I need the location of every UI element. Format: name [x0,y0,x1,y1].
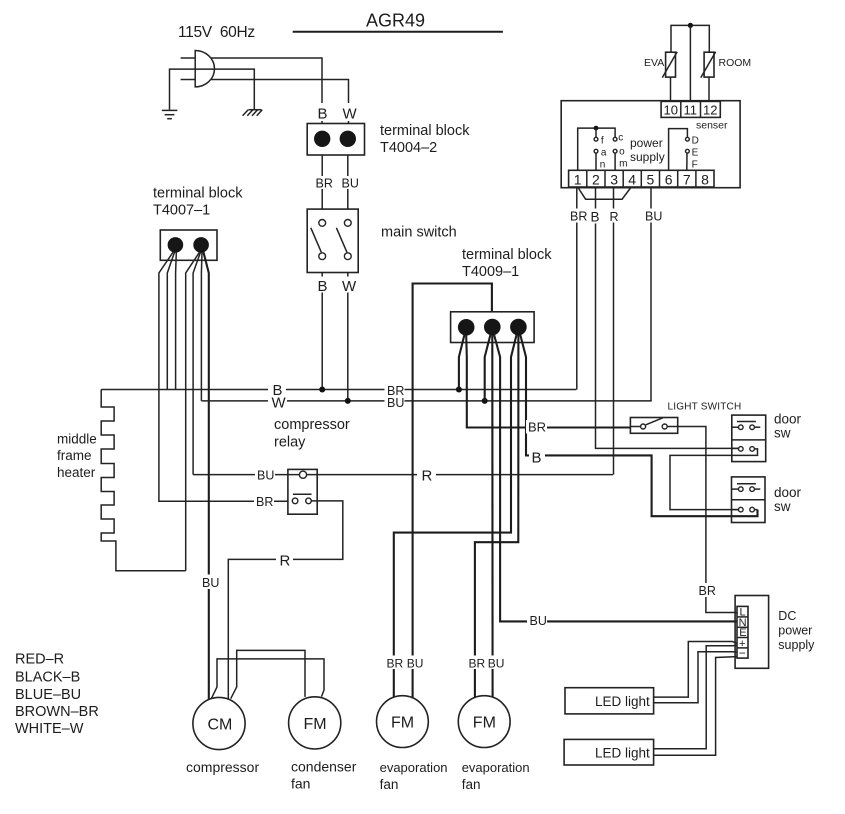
svg-text:heater: heater [57,465,96,480]
svg-text:fan: fan [291,776,310,792]
terminal block T4009-1 [451,312,534,343]
svg-text:FM: FM [391,715,414,732]
svg-text:B: B [532,450,542,467]
svg-text:BU: BU [257,469,274,483]
wire terminal1 BR to B bus [576,187,578,390]
wire label BR [314,176,333,190]
svg-text:senser: senser [696,119,728,131]
wire T4009 left to B bus [459,335,465,390]
svg-text:W: W [343,106,358,123]
controller main box [561,101,740,188]
bus label BU [387,396,404,410]
svg-text:3: 3 [610,171,618,187]
svg-text:T4009–1: T4009–1 [462,264,519,280]
wire: plug top line to B terminal [211,58,322,124]
compressor motor CM [193,697,245,749]
svg-text:compressor: compressor [274,417,350,433]
wire T4009 mid to evaporation fan2 BU [491,335,493,697]
svg-text:door: door [774,412,802,427]
svg-text:EVA: EVA [644,57,664,69]
svg-text:BR: BR [469,656,486,670]
wire T4007 right BU to compressor [203,252,209,700]
AC plug P1 [181,51,215,87]
senser terminal strip 10 11 12 [661,101,720,117]
wire label BU (evap fan1) [406,656,424,671]
wire label B (door switch link) [529,449,545,467]
svg-text:8: 8 [701,171,709,187]
svg-text:4: 4 [628,171,636,187]
svg-text:BU: BU [488,656,505,670]
svg-text:CM: CM [208,717,233,734]
wire T4007 left to BR relay contact [159,252,288,502]
svg-text:terminal block: terminal block [153,186,243,202]
wire label BR (evap fan1) [385,656,404,671]
wire label BU (relay coil) [255,468,275,483]
svg-text:o: o [619,147,625,158]
wire EVA to terminal 10 [670,77,672,101]
svg-text:compressor: compressor [186,759,259,775]
svg-text:T4004–2: T4004–2 [380,140,437,156]
wire label R (R line) [417,466,436,485]
label terminal block T4009-1 [462,247,552,280]
wire T4009 mid to DC supply BU [494,335,737,622]
svg-text:BU: BU [407,656,424,670]
svg-text:7: 7 [683,171,691,187]
wire T4009 right to door switch B [520,335,757,517]
wire terminal3 R to R line [613,187,615,475]
svg-text:main switch: main switch [381,225,457,241]
wire label B (below main switch) [315,277,330,296]
svg-text:BLUE–BU: BLUE–BU [15,687,81,703]
svg-text:RED–R: RED–R [15,652,64,668]
controller contact D-E feed from terminal 6 [669,129,688,171]
wire: plug bottom line to W terminal [211,80,349,124]
svg-text:R: R [280,553,291,570]
svg-text:power: power [630,136,663,150]
main switch S1 [307,209,358,272]
svg-text:6: 6 [665,171,673,187]
wire label BR (evap fan2) [467,656,486,671]
wire T4004-2 to main switch (BR) [321,155,323,209]
svg-text:relay: relay [274,435,306,451]
svg-text:1: 1 [574,171,582,187]
svg-text:F: F [692,160,698,171]
wire T4007 left to B bus b [175,252,178,389]
svg-text:door: door [774,485,802,500]
svg-text:WHITE–W: WHITE–W [15,721,84,737]
svg-text:terminal block: terminal block [380,123,470,139]
wire LED2 - to DC [654,657,737,756]
condenser fan motor FM [289,697,341,749]
bus label W [272,394,287,411]
label evaporation fan 2 [462,760,530,792]
wire T4007 right to W bus [200,252,203,401]
wire label BR (terminal1) [568,209,587,224]
door switch 2 [732,477,766,523]
wire label BU (terminal5) [643,209,662,224]
svg-text:middle: middle [57,432,97,447]
door switch 1 [732,415,766,462]
wire label W (below main switch) [340,277,357,296]
junction dot W bus / T4009 [482,398,488,404]
wire T4009 mid to W bus [485,335,491,401]
wire sensor mid to terminal 11 [689,25,691,101]
wire T4009 left to light switch BR [466,335,630,427]
junction dot B bus / T4009 [456,387,462,393]
wire R line (relay coil to controller terminal 3) [193,474,613,476]
svg-text:c: c [618,133,623,144]
node label W (above T4004-2) [340,103,358,123]
legend wire colour codes [15,652,99,738]
svg-text:BU: BU [530,614,547,628]
svg-text:sw: sw [774,499,791,514]
wire LED1 - to DC [654,652,737,703]
label power supply [630,136,665,164]
thermistor EVA [662,52,677,78]
B bus [101,389,576,391]
wire terminal5 BU to W bus [650,187,652,401]
wire label R (to compressor) [276,552,293,570]
bus label B [268,382,287,408]
svg-text:−: − [739,646,746,660]
svg-text:LIGHT SWITCH: LIGHT SWITCH [668,401,742,412]
wire door switch1 to door switch2 [670,449,758,510]
compressor relay K1 [288,469,317,514]
svg-text:115V 60Hz: 115V 60Hz [178,24,255,41]
controller internal feed terminal1 [578,128,615,170]
wire T4009 mid loop to evaporation fan1 BU [413,284,492,698]
label compressor relay [274,417,350,451]
controller contact D-E [686,137,690,170]
wire condenser fan link 1 [231,650,305,698]
svg-text:m: m [619,159,627,170]
svg-text:BU: BU [387,396,404,410]
svg-text:11: 11 [684,103,698,118]
svg-text:W: W [272,394,287,411]
wire: plug middle line earth to chassis [170,69,255,110]
svg-text:BR: BR [316,176,333,190]
wire label BR (DC supply feed) [697,583,716,598]
svg-text:BROWN–BR: BROWN–BR [15,704,99,720]
svg-text:BR: BR [570,210,587,224]
svg-text:FM: FM [473,715,496,732]
wire T4009 right to evaporation fan1 BR [394,335,517,698]
label middle frame heater [57,432,97,481]
svg-text:D: D [692,136,699,147]
svg-text:terminal block: terminal block [462,247,552,263]
svg-text:evaporation: evaporation [380,760,448,775]
svg-text:power: power [778,624,812,638]
svg-text:R: R [422,468,433,485]
wire label BU (to DC supply) [527,614,547,629]
svg-text:BU: BU [645,210,662,224]
junction dot W bus / main switch [345,398,351,404]
svg-text:R: R [610,210,619,224]
wire label BR (relay contact) [254,494,274,509]
wire condenser fan link 2 [211,659,324,699]
wire label BU (evap fan2) [487,656,505,671]
svg-text:2: 2 [592,171,600,187]
svg-text:5: 5 [647,171,655,187]
wire T4007 right to heater bottom [186,252,200,571]
svg-text:E: E [692,148,699,159]
chassis ground [243,110,263,116]
svg-text:10: 10 [664,103,678,118]
labels c o m [618,133,627,170]
jumper terminal1-terminal4 [578,187,632,199]
junction dot B bus / main switch [319,387,325,393]
svg-text:fan: fan [380,777,399,792]
label evaporation fan 1 [380,760,448,792]
W bus [201,400,651,402]
svg-text:sw: sw [774,426,791,441]
wire T4009 right to evaporation fan2 BR [475,335,519,698]
node label B (above T4004-2) [314,103,330,123]
wire terminal2 B to door switch1 [596,187,739,448]
label DC power supply [778,609,815,652]
junction dot internal [594,126,599,131]
label door sw 1 [774,412,802,441]
wire ROOM to terminal 12 [708,77,710,101]
thermistor ROOM [701,52,716,78]
wire main switch to B bus [321,273,323,390]
svg-text:fan: fan [462,777,481,792]
svg-text:FM: FM [304,716,327,733]
svg-text:BR: BR [699,584,716,598]
wire label B (terminal2) [588,209,603,225]
svg-text:supply: supply [778,638,815,652]
svg-text:T4007–1: T4007–1 [153,203,210,219]
wire LED1 + to DC [654,642,737,698]
wire T4007 right to relay coil BU [193,252,200,474]
LED light 2 [564,739,654,765]
wire label BU (to compressor) [200,575,219,590]
label door sw 2 [774,485,802,514]
earth ground [162,110,178,118]
wire T4007 left to B bus a [167,252,174,389]
svg-text:BR: BR [387,656,404,670]
svg-text:n: n [600,160,606,171]
svg-text:W: W [342,278,357,295]
controller terminal strip 1-8 [569,170,714,187]
middle frame heater [101,390,186,571]
wire LED2 + to DC [654,645,737,749]
labels D E F [692,136,699,171]
wire label R (terminal3) [607,209,622,224]
svg-text:frame: frame [57,448,92,463]
wire label BR (light switch feed) [526,420,547,435]
DC power supply box [735,596,769,669]
controller contact c-o [613,137,617,170]
label condenser fan [291,759,357,792]
svg-text:12: 12 [703,103,717,118]
wire main switch to W bus [347,273,349,401]
wire relay contact out R to compressor [228,501,342,700]
svg-text:AGR49: AGR49 [366,11,425,31]
svg-text:LED light: LED light [595,746,650,761]
svg-text:BU: BU [342,176,359,190]
svg-text:a: a [601,148,607,159]
svg-text:B: B [318,278,328,295]
labels f a n [600,136,607,171]
evaporation fan motor 1 FM [377,696,429,748]
junction dot sensors [688,23,693,28]
svg-text:ROOM: ROOM [719,57,752,69]
svg-text:BU: BU [202,576,219,590]
LED light 1 [565,688,654,714]
svg-text:f: f [601,136,604,147]
svg-text:BR: BR [528,420,546,435]
sensor top wire with junction [671,25,709,52]
label terminal block T4007-1 [153,186,243,219]
svg-text:BLACK–B: BLACK–B [15,670,80,686]
svg-text:LED light: LED light [595,694,650,709]
controller contact f-a [594,128,598,170]
wire light switch to DC supply L [678,427,737,613]
svg-text:B: B [591,210,600,225]
evaporation fan motor 2 FM [458,696,510,748]
light switch [630,418,677,434]
svg-text:supply: supply [630,150,665,164]
terminal block T4007-1 [160,230,217,260]
wire label BU [340,176,359,190]
svg-text:DC: DC [778,609,796,623]
svg-text:evaporation: evaporation [462,760,530,775]
svg-text:B: B [318,106,328,123]
label terminal block T4004-2 [380,123,470,156]
wire T4004-2 to main switch (BU) [347,155,349,209]
svg-text:BR: BR [256,495,273,509]
svg-text:condenser: condenser [291,759,357,775]
bus label BR [385,383,405,408]
terminal block T4004-2 [307,124,364,156]
title AGR49 [293,11,503,32]
